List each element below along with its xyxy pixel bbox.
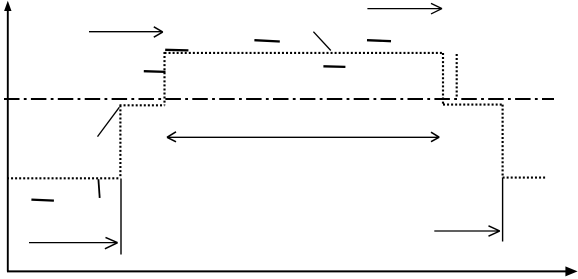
short dash label D5 (367, 40, 391, 41)
solid vertical marker line left (120, 179, 122, 255)
dash-dot centerline (4, 98, 554, 100)
short dash label D6 (323, 65, 345, 68)
dotted segment S8 vertical fall to low (502, 105, 504, 178)
diagonal leader to top line (313, 32, 330, 51)
dotted segment S7 mid level right (443, 104, 503, 106)
dotted segment S10 short vertical at step (456, 54, 458, 98)
arrow A2 upper left (89, 27, 163, 37)
small tick below low level (98, 179, 99, 198)
dotted segment S3 mid level left (120, 104, 165, 106)
arrow A1 top right (367, 3, 442, 14)
solid vertical marker line right (502, 178, 504, 242)
dotted segment S2 vertical rise left (119, 105, 121, 178)
short dash label D4 (254, 40, 279, 41)
short dash label D3 (165, 49, 188, 52)
double arrow A3 (167, 132, 439, 142)
dotted segment S9 low level right (503, 177, 547, 179)
dotted segment S5 top level (165, 52, 444, 54)
dotted segment S1 low level left (7, 177, 121, 179)
dotted segment S4 vertical rise to top (163, 52, 165, 105)
diagonal leader to left step corner (98, 107, 120, 136)
arrow A5 bottom right (434, 226, 500, 236)
short dash label D2 (144, 70, 166, 73)
x-axis (7, 270, 567, 272)
arrow A4 bottom left (29, 237, 118, 248)
y-axis (7, 9, 9, 272)
x-axis arrowhead (565, 266, 577, 276)
short dash label D1 (31, 200, 54, 201)
y-axis arrowhead (4, 1, 11, 11)
dotted segment S6 vertical fall right (442, 53, 444, 105)
